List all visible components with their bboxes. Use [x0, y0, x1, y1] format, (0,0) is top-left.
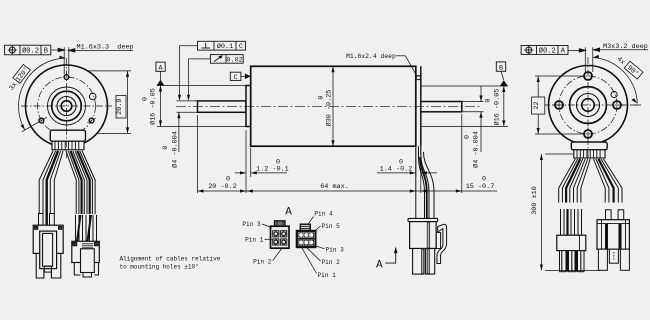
diagonal wires [77, 215, 81, 241]
top latch [275, 221, 286, 226]
hub ring r11.5 [577, 94, 600, 117]
centerline horizontal [21, 105, 112, 107]
wire stubs [606, 210, 612, 220]
position symbol [526, 47, 532, 53]
svg-text:Pin 1: Pin 1 [245, 236, 264, 243]
4-pin connector face view [271, 221, 290, 248]
GD&T frame position dia0.2 A [521, 46, 568, 55]
dia4 left dimension [177, 100, 198, 102]
centerline horizontal [543, 104, 641, 106]
bottom dimension chain [198, 114, 498, 193]
GD&T frame position dia0.2 B [5, 45, 51, 55]
svg-text:B: B [44, 47, 48, 55]
inner plug [43, 233, 53, 266]
hub ring r18.4 [570, 87, 607, 124]
body [72, 241, 100, 262]
wire channel left prong [422, 249, 424, 274]
outer flange circle [549, 66, 628, 145]
svg-text:Alignment of cables relative: Alignment of cables relative [120, 256, 221, 263]
right view right connector (2-wire plug) [597, 210, 629, 270]
right leg [94, 263, 98, 276]
leader from frame to hole ext line [568, 48, 648, 52]
wires into body [561, 209, 582, 235]
dia16 right dimension [421, 86, 508, 126]
dia4 right dimension [462, 101, 484, 103]
svg-text:M3x3.2 deep: M3x3.2 deep [603, 43, 648, 51]
mounting hole top [584, 72, 592, 80]
left view right connector (multi-wire plug) [72, 215, 100, 277]
center axis line [176, 105, 481, 107]
svg-text:0: 0 [142, 97, 150, 101]
svg-text:22: 22 [533, 101, 541, 109]
hub ring r9.5 [57, 97, 76, 116]
hub ring r14.8 [52, 91, 82, 121]
120deg radial extension line [22, 117, 47, 131]
right leg [51, 253, 60, 278]
svg-text:Ø0.1: Ø0.1 [217, 42, 233, 51]
centerline through clamp [66, 128, 68, 158]
dimension 1.2 -0.1 [235, 130, 287, 193]
right prong [426, 249, 435, 275]
cable clamp block [50, 130, 85, 141]
bolt circle [559, 76, 617, 134]
right wire group [594, 159, 623, 203]
svg-text:0: 0 [162, 146, 170, 150]
dia16 left dimension [157, 86, 246, 127]
svg-text:Pin 2: Pin 2 [253, 258, 272, 265]
corner tab right [58, 226, 62, 229]
svg-text:0: 0 [226, 176, 230, 184]
svg-text:M1.6x3.3 deep: M1.6x3.3 deep [77, 44, 134, 52]
svg-text:Pin 3: Pin 3 [242, 221, 261, 228]
svg-text:Ø16 -0.05: Ø16 -0.05 [149, 88, 158, 125]
cavity squares light strokes [298, 232, 314, 245]
svg-text:0: 0 [399, 159, 403, 167]
svg-text:Ø4 -0.004: Ø4 -0.004 [171, 131, 180, 168]
centerline through clamp (right view) [587, 138, 589, 158]
left black wire [47, 151, 58, 225]
M3x3.2 label leader [594, 49, 649, 51]
alignment hole [611, 91, 617, 97]
svg-text:Ø30 -0.25: Ø30 -0.25 [325, 90, 334, 127]
latch arm [436, 233, 440, 249]
svg-text:Ø16 -0.05: Ø16 -0.05 [492, 89, 501, 126]
front boss dia16 [246, 86, 251, 127]
svg-text:0: 0 [482, 176, 486, 184]
svg-text:M1.6x2.4 deep: M1.6x2.4 deep [346, 53, 396, 60]
left shaft [198, 101, 247, 112]
svg-text:15 -0.7: 15 -0.7 [466, 183, 495, 191]
right black wire [599, 159, 614, 203]
svg-text:0: 0 [276, 159, 280, 167]
position symbol [9, 47, 15, 53]
perpendicular symbol [202, 47, 211, 49]
hole center marks [553, 104, 566, 106]
cavity TR [281, 231, 287, 237]
band wire lines [55, 141, 79, 150]
left leg [36, 253, 44, 278]
svg-text:Pin 1: Pin 1 [318, 272, 337, 279]
runout frame leader [189, 59, 211, 95]
cavity BL [273, 239, 279, 245]
svg-text:0: 0 [484, 99, 492, 103]
wire channel right prong [427, 249, 429, 274]
shell [33, 225, 63, 253]
arc arrowheads [593, 55, 599, 58]
center plug [81, 249, 95, 273]
3x 120deg label [6, 64, 31, 92]
cavity TL [273, 231, 279, 237]
perp frame leader [180, 46, 198, 95]
right black wires [71, 151, 82, 214]
svg-text:C: C [239, 43, 243, 51]
dimension 1.4 -0.2 [377, 146, 437, 193]
wire bars inside [605, 224, 608, 250]
svg-text:0: 0 [463, 135, 471, 139]
M1.6x3.3 label leader [69, 49, 133, 51]
svg-text:300 ±10: 300 ±10 [531, 186, 539, 215]
mounting hole bottom [584, 130, 592, 138]
hub ring r19 [48, 87, 86, 125]
bend wires [419, 158, 425, 219]
wire lines [76, 215, 97, 241]
bottom feet [83, 273, 92, 278]
left wire group [559, 159, 591, 203]
svg-text:1.4 -0.2: 1.4 -0.2 [380, 165, 413, 173]
side view cable exit [416, 146, 434, 219]
left leg [74, 263, 80, 276]
black wire [420, 157, 427, 219]
body [597, 220, 629, 250]
svg-text:Pin 4: Pin 4 [314, 210, 333, 217]
centerline vertical [587, 57, 589, 150]
hole extension lines [585, 47, 593, 72]
svg-text:Ø0.2: Ø0.2 [22, 46, 39, 55]
4x 90deg label [615, 54, 643, 80]
top latch [300, 224, 310, 230]
chain arrowheads [198, 189, 204, 192]
svg-text:Ø4 -0.004: Ø4 -0.004 [472, 131, 481, 168]
body [271, 226, 290, 248]
legs [598, 249, 607, 270]
cable band [574, 150, 605, 158]
motor body dia30 [251, 66, 416, 146]
svg-text:Pin 2: Pin 2 [322, 259, 341, 266]
shaft circle [582, 99, 595, 112]
latch hook [437, 224, 447, 263]
cavities: white circles [299, 233, 313, 245]
cavity BR [281, 239, 287, 245]
svg-text:Pin 5: Pin 5 [322, 223, 341, 230]
right wire group [66, 151, 95, 214]
svg-text:1.2 -0.1: 1.2 -0.1 [256, 165, 289, 173]
dimension 20.9 [87, 71, 131, 133]
flange top [408, 218, 438, 221]
wire channel in body [427, 222, 430, 248]
ext dash from right hole [622, 104, 641, 106]
dia30 dimension [332, 67, 334, 146]
svg-text:C: C [234, 74, 238, 82]
4x 90 arc [593, 58, 637, 104]
cable band [52, 141, 84, 150]
mounting hole top [64, 75, 69, 80]
mounting hole right [613, 101, 621, 109]
left view left connector (2-wire plug side view) [33, 214, 63, 279]
3x 120 arc [19, 58, 66, 130]
dimension 300 +-10 [541, 154, 600, 271]
left prong [413, 249, 424, 275]
svg-text:A: A [285, 207, 292, 219]
svg-text:Ø0.2: Ø0.2 [539, 46, 556, 55]
svg-text:0.02: 0.02 [226, 56, 242, 64]
runout arrow symbol [214, 56, 222, 61]
right shaft [421, 102, 462, 112]
datum C box and triangle [230, 72, 250, 82]
mounting hole lower-left [39, 118, 44, 123]
left wire group [39, 151, 63, 214]
rear plate [420, 66, 422, 146]
svg-text:20.9: 20.9 [116, 99, 124, 115]
outer flange circle [26, 65, 108, 147]
wire stub 2 [50, 214, 55, 226]
hole extension lines [64, 47, 69, 74]
dimension 22 [535, 76, 585, 134]
arc arrowheads [59, 56, 65, 59]
corner tab left [34, 226, 38, 229]
body [410, 222, 437, 249]
inner housing [40, 231, 57, 269]
svg-text:20 -0.2: 20 -0.2 [208, 183, 237, 191]
svg-text:64 max.: 64 max. [320, 183, 349, 191]
prongs [560, 251, 567, 272]
leader from frame to hole ext line [51, 48, 133, 52]
GD&T perpendicularity frame [198, 41, 246, 50]
left black wire [566, 159, 580, 203]
foot [44, 266, 51, 272]
mounting hole left [555, 101, 563, 109]
GD&T runout frame [210, 55, 243, 64]
6-pin connector face view [296, 224, 315, 247]
svg-text:0: 0 [318, 96, 326, 100]
svg-text:A: A [376, 259, 383, 271]
body [557, 235, 586, 250]
hole center marks [87, 118, 96, 123]
body [296, 231, 315, 248]
centerline vertical [66, 58, 68, 150]
svg-text:to mounting holes ±10°: to mounting holes ±10° [120, 263, 199, 270]
svg-text:Pin 3: Pin 3 [326, 247, 345, 254]
bolt circle [38, 77, 96, 135]
tab right [94, 242, 98, 246]
tab left [73, 242, 77, 246]
shaft circle [61, 101, 72, 112]
latch lines [82, 244, 93, 248]
side view connector (plug with latch) [408, 218, 447, 274]
wire stub 1 [39, 214, 44, 226]
conduit [415, 146, 417, 219]
rear face hole M1.6x2.4 [416, 76, 421, 80]
alignment hole [89, 93, 96, 100]
datum B box [496, 62, 508, 86]
mounting hole lower-right [89, 118, 94, 123]
datum A box [156, 62, 165, 85]
center bar [609, 249, 618, 263]
band wire lines [577, 150, 600, 158]
cable clamp block [571, 142, 607, 150]
right view left connector (multi-wire) [557, 209, 586, 272]
